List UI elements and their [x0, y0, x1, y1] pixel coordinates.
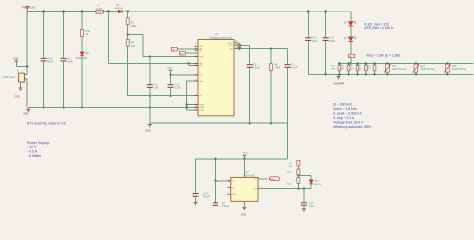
junction +12V tap	[26, 65, 28, 67]
svg-text:LOAD Input: LOAD Input	[2, 76, 15, 79]
wire J1 pin 2	[24, 78, 27, 80]
junction tap node	[297, 174, 299, 176]
wire bank R18 top stub	[374, 63, 376, 65]
svg-text:IL peak ~ 0.5014 A: IL peak ~ 0.5014 A	[333, 111, 362, 115]
wire loop left down to C16	[195, 159, 197, 193]
junction LED string to bank	[350, 62, 352, 64]
svg-text:GND: GND	[232, 194, 237, 196]
pin PGND U1 left	[195, 106, 199, 108]
ground J1	[18, 88, 22, 90]
wire trimmer R11 top stub	[386, 62, 388, 65]
LED D13 string top	[348, 21, 356, 26]
resistor R14 bank	[338, 65, 341, 71]
wire C17 gnd stub	[303, 206, 305, 209]
wire rail to R11	[81, 12, 83, 30]
svg-text:efficiency assumed: 58%: efficiency assumed: 58%	[333, 125, 370, 129]
svg-text:Req = 1.5R (E = 1.88): Req = 1.5R (E = 1.88)	[367, 53, 400, 57]
junction switch node	[107, 10, 109, 12]
svg-text:GND: GND	[199, 81, 204, 83]
resistor R11	[81, 30, 84, 37]
ground bottom rail	[148, 125, 152, 127]
pin EN U1 left	[195, 50, 199, 52]
svg-text:GND: GND	[145, 130, 151, 133]
capacitor C16	[193, 194, 199, 197]
wire SW vertical	[108, 12, 110, 64]
pin OUT U2 right	[258, 188, 262, 190]
ground C16	[193, 203, 197, 205]
wire trimmer R13 bottom stub	[446, 72, 448, 74]
wire R10 to R12	[297, 175, 299, 178]
wire down to C8	[215, 181, 217, 203]
wire GND rail left	[28, 106, 186, 108]
svg-text:40.2k: 40.2k	[287, 184, 292, 186]
capacitor C17	[301, 203, 307, 205]
svg-text:10R: 10R	[357, 69, 361, 71]
junction EN C9 node	[149, 55, 151, 57]
wire top rail between L1 and D5	[103, 11, 118, 13]
svg-text:IL avg ~ 0.4 A: IL avg ~ 0.4 A	[333, 116, 354, 120]
svg-text:- 12 V: - 12 V	[27, 145, 37, 149]
capacitor C8	[213, 203, 218, 206]
ground left rail	[26, 109, 30, 111]
wire subcircuit top loop	[196, 158, 288, 160]
svg-text:- 0.5 A: - 0.5 A	[27, 150, 38, 154]
wire R11 to LED	[81, 37, 83, 52]
wire C13 to out rail	[307, 41, 309, 74]
wire C1 to GND	[63, 62, 65, 108]
wire C5 to bottom rail	[249, 68, 251, 123]
svg-text:Power Supply:: Power Supply:	[27, 141, 50, 145]
wire bottom GND rail	[150, 122, 288, 124]
pin PGND U1 left	[195, 109, 199, 111]
wire bank R15 bottom stub	[348, 71, 350, 74]
wire J1 pin 1	[24, 74, 27, 76]
svg-text:Voltage limit: 28.3 V: Voltage limit: 28.3 V	[333, 120, 364, 124]
svg-text:VCC: VCC	[167, 67, 172, 70]
wire bank R16 bottom stub	[357, 71, 359, 74]
svg-text:1: 1	[25, 73, 26, 75]
wire VCC to C10	[170, 75, 172, 84]
svg-text:R12: R12	[421, 65, 426, 68]
wire J1 pin 2 to GND rail	[26, 79, 28, 107]
wire bank R15 top stub	[348, 63, 350, 65]
wire C7 to bottom rail	[287, 68, 289, 123]
svg-text:VCC: VCC	[243, 152, 248, 155]
wire VCC into U1	[171, 74, 199, 76]
net label box B	[179, 51, 185, 55]
capacitor C13	[305, 38, 311, 41]
net label box A	[171, 47, 177, 51]
wire VCC stub	[170, 70, 172, 75]
svg-text:100uH: 100uH	[96, 9, 103, 11]
resistor R10	[297, 169, 300, 175]
pin OUT U2 right	[258, 178, 262, 180]
pin SW U1 left	[195, 62, 199, 64]
wire EN node to C9	[149, 57, 151, 84]
svg-text:GND: GND	[15, 96, 21, 99]
junction VCC U2	[243, 158, 245, 160]
svg-text:- 6 Watts: - 6 Watts	[27, 154, 41, 158]
wire PGND pin A	[187, 80, 198, 82]
wire R2 to FB wire	[127, 46, 129, 95]
wire R12 to out wire	[297, 183, 299, 188]
wire D7 top	[310, 176, 312, 180]
wire R9 to R10	[297, 166, 299, 169]
wire EN into U1	[143, 56, 198, 58]
svg-text:GNDPWR: GNDPWR	[333, 82, 344, 85]
pin VCC U1 left	[195, 74, 199, 76]
svg-text:PGND: PGND	[199, 110, 205, 112]
LED D14 string bottom	[348, 36, 356, 41]
trimmer R12	[414, 64, 418, 72]
wire rail to C13	[307, 12, 309, 38]
wire PGND bus	[186, 81, 188, 110]
wire C19 to GND	[43, 62, 45, 108]
capacitor C7	[285, 65, 291, 68]
pin IN U2 left	[227, 180, 231, 182]
svg-text:Pull: Pull	[289, 166, 293, 168]
resistor R2	[126, 39, 129, 46]
wire bank R16 top stub	[357, 63, 359, 65]
net label box LED-	[348, 54, 355, 57]
resistor R1	[126, 18, 129, 25]
capacitor C14	[323, 38, 329, 41]
wire SW pin 2 stub	[189, 64, 198, 66]
svg-text:fpwm ~ 2.8 kHz: fpwm ~ 2.8 kHz	[333, 107, 357, 111]
wire bank R14 bottom stub	[339, 71, 341, 74]
svg-text:UVLO: UVLO	[199, 56, 204, 58]
svg-text:R11: R11	[392, 65, 397, 68]
svg-text:R?s must be close to J1!: R?s must be close to J1!	[27, 121, 66, 125]
resistor R18 bank	[373, 65, 376, 71]
pin UVLO U1 left	[195, 56, 199, 58]
wire C9 to bottom rail	[149, 88, 151, 123]
svg-text:10R: 10R	[340, 69, 344, 71]
svg-text:C17: C17	[309, 202, 314, 205]
wire VCC to U2 top	[243, 159, 245, 178]
wire trimmer R12 bottom stub	[415, 72, 417, 74]
wire PGND pin D	[187, 109, 198, 111]
wire D14 to bank	[350, 41, 352, 63]
capacitor C19	[41, 58, 47, 61]
wire R1 to R2	[127, 25, 129, 39]
wire BOOT to C11	[238, 43, 240, 44]
capacitor C11 boot	[237, 45, 241, 47]
wire trimmer R11 bottom stub	[386, 72, 388, 74]
wire to C5	[249, 45, 251, 64]
wire bank top rail	[338, 62, 474, 64]
wire R6 top	[270, 49, 272, 64]
connector J1 LOAD input	[19, 73, 25, 82]
wire output gnd stub	[338, 74, 340, 76]
wire SW into U1	[109, 62, 199, 64]
wire VCC stub U2	[243, 155, 245, 159]
svg-text:10R: 10R	[331, 69, 335, 71]
wire rail to R1	[127, 12, 129, 18]
wire VIN top rail left segment	[27, 11, 96, 13]
pin BOOT U1 right	[234, 42, 238, 44]
power port VCC	[169, 69, 173, 71]
wire tap to D7	[298, 175, 311, 177]
svg-text:R13: R13	[452, 65, 457, 68]
wire EN vertical	[142, 35, 144, 57]
junction divider mid	[127, 33, 129, 35]
svg-text:10R: 10R	[349, 69, 353, 71]
pin SW U1 left	[195, 64, 199, 66]
pin VCC U1 right	[234, 44, 238, 46]
wire +12V stub	[15, 61, 17, 66]
pin PGND U1 left	[195, 104, 199, 106]
wire trimmer R12 top stub	[415, 62, 417, 65]
junction R6 top	[270, 48, 272, 50]
diode D7 BAT54	[309, 180, 313, 184]
svg-text:SW: SW	[230, 49, 233, 51]
wire bank R17 top stub	[365, 63, 367, 65]
op-amp U2 MCP1407 driver IC	[231, 177, 258, 201]
ground C17	[302, 209, 306, 212]
trimmer R13	[445, 64, 449, 72]
wire rail to C1	[63, 12, 65, 58]
resistor R17 bank	[364, 65, 367, 71]
svg-text:fs ~ 300 kHz: fs ~ 300 kHz	[333, 102, 352, 106]
wire net label A to U1	[177, 48, 198, 50]
wire EN horizontal	[128, 34, 143, 36]
ground U2	[242, 207, 246, 209]
power port +12V	[14, 60, 18, 62]
svg-text:+12V: +12V	[13, 57, 19, 60]
wire R6 to bottom rail	[270, 70, 272, 123]
wire D13 to D14	[350, 26, 352, 37]
op-amp U1 TPS92515 LED driver IC	[198, 40, 234, 116]
junction U2 pin1 node	[214, 180, 216, 182]
resistor R15 bank	[347, 65, 350, 71]
wire U2 gnd stub	[243, 201, 245, 207]
svg-text:MBR340: MBR340	[115, 8, 124, 10]
svg-text:GND: GND	[241, 214, 247, 217]
svg-text:PGND: PGND	[199, 104, 205, 106]
svg-text:2: 2	[25, 78, 26, 80]
wire to C17	[303, 189, 305, 203]
wire U2 out to net label	[258, 178, 267, 180]
wire U2 out2 to diode	[258, 188, 311, 190]
wire into U2 pin 1	[216, 180, 231, 182]
svg-text:10nF: 10nF	[309, 205, 315, 208]
pin GND U1 left	[195, 80, 199, 82]
wire bank R18 bottom stub	[374, 71, 376, 74]
wire D7 bottom	[310, 184, 312, 188]
LED D12 buffer	[80, 51, 87, 56]
wire rail to C19	[43, 12, 45, 58]
svg-text:SW: SW	[199, 65, 202, 67]
svg-text:GND: GND	[23, 113, 29, 116]
junction VCC node	[169, 74, 171, 76]
wire to C7	[287, 49, 289, 64]
svg-text:PGND: PGND	[199, 107, 205, 109]
wire bottom gnd stub	[149, 123, 151, 124]
wire C10 to FB wire	[170, 88, 172, 96]
wire PGND pin C	[187, 106, 198, 108]
pin SW U1 right	[234, 48, 238, 50]
svg-text:Buffer LED: Buffer LED	[76, 57, 88, 60]
pin VIN U1 left	[195, 48, 199, 50]
resistor R6	[269, 64, 272, 71]
capacitor C10	[168, 85, 174, 88]
svg-text:10R: 10R	[366, 69, 370, 71]
wire PGND pin B	[187, 104, 198, 106]
wire +12V tap	[16, 65, 27, 67]
capacitor C1	[61, 58, 67, 61]
wire C16 to ground	[195, 197, 197, 203]
wire J1 shield stub	[19, 82, 21, 88]
power flag PWR_FLAG	[26, 7, 29, 12]
wire loop to U2 pin 1	[215, 159, 217, 181]
trimmer R11	[386, 64, 390, 72]
wire C14 to out rail	[325, 41, 327, 74]
pin FB U1 left	[195, 95, 199, 97]
svg-text:SW: SW	[199, 63, 202, 65]
wire LED to GND	[81, 57, 83, 108]
resistor R12	[297, 178, 300, 184]
pin NC U2 left	[227, 187, 231, 189]
junction divider top	[127, 10, 129, 12]
inductor L1	[96, 10, 103, 13]
capacitor C5	[247, 65, 253, 68]
wire SW drop	[188, 63, 190, 65]
wire rail to D13	[350, 12, 352, 22]
wire SW long right	[234, 48, 288, 50]
wire net label B to U1	[185, 52, 198, 54]
ground output rail	[336, 77, 340, 79]
svg-text:TPS92515DGQR: TPS92515DGQR	[209, 36, 233, 40]
svg-text:PWR_FLAG: PWR_FLAG	[22, 6, 35, 9]
wire FB into U1	[128, 95, 198, 97]
junction SW pins	[187, 62, 189, 64]
svg-text:ILED_max = 0.160 A: ILED_max = 0.160 A	[364, 26, 394, 30]
junction boot cap	[238, 48, 240, 50]
svg-text:PWM: PWM	[269, 179, 274, 181]
wire output top rail	[123, 11, 351, 13]
wire riser rail to subcircuit	[287, 123, 289, 159]
wire bank R14 top stub	[339, 63, 341, 65]
svg-text:0.22uF: 0.22uF	[222, 205, 230, 208]
wire rail to C14	[325, 12, 327, 38]
net label oval PWM	[269, 177, 279, 181]
pin VIN U1 left	[195, 45, 199, 47]
wire VIN vertical to J1 pin 1	[26, 12, 28, 75]
power port VCC subcircuit	[243, 154, 247, 156]
resistor R9	[297, 161, 300, 167]
wire output return rail	[308, 73, 473, 75]
wire gnd rail end stub	[27, 107, 29, 109]
diode D5	[118, 10, 122, 13]
pin GND U2 left	[227, 193, 231, 195]
capacitor C9	[147, 85, 153, 88]
wire BOOT pin	[234, 42, 240, 44]
wire C11 to SW wire	[238, 48, 240, 49]
resistor R16 bank	[356, 65, 359, 71]
wire trimmer R13 top stub	[446, 62, 448, 65]
wire bank R17 bottom stub	[365, 71, 367, 74]
wire VCC pin right	[234, 44, 250, 46]
